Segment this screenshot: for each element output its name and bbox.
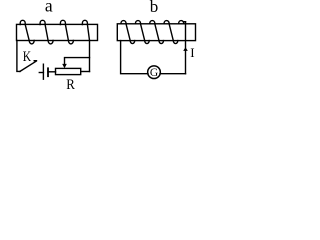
svg-text:G: G <box>150 67 158 79</box>
rheostat slider wire <box>65 58 90 64</box>
coil a winding <box>20 20 89 44</box>
wire battery to resistor <box>48 71 56 73</box>
resistor R box <box>56 68 81 74</box>
svg-text:K: K <box>23 49 32 65</box>
right vertical wire b <box>185 22 187 74</box>
core rectangle b <box>117 24 195 41</box>
current arrow head <box>183 47 188 51</box>
right vertical wire a <box>89 41 91 72</box>
wire galvanometer to right <box>160 73 186 75</box>
wire switch to battery <box>39 72 43 74</box>
left lead wire a <box>17 41 20 72</box>
svg-text:b: b <box>150 0 159 16</box>
battery long plate <box>42 64 44 79</box>
rheostat arrow head <box>62 64 67 68</box>
switch K blade <box>20 61 36 71</box>
galvanometer circle <box>148 66 161 79</box>
svg-text:R: R <box>66 77 75 92</box>
svg-text:I: I <box>190 45 194 60</box>
svg-text:a: a <box>45 0 53 15</box>
wire resistor to right <box>81 71 90 73</box>
left lead wire b <box>121 41 148 74</box>
coil b winding <box>121 21 186 44</box>
switch contact tick <box>34 60 36 62</box>
battery short plate <box>47 68 49 76</box>
core rectangle a <box>17 24 98 40</box>
